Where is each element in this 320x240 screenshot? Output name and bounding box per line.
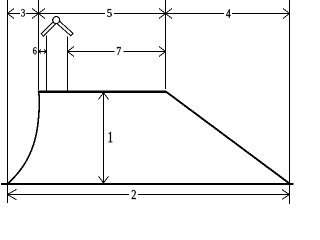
extension line B (crest left) [38,0,40,90]
dimension 2 line [8,194,290,196]
tower right leg [67,37,69,91]
tower left leg [46,36,48,91]
tower apex circle [53,17,60,24]
profile crest (flat top) [38,91,166,93]
dimension 4 line [166,13,290,15]
dimension 1 arrows [99,93,109,183]
label 4 [226,9,230,17]
dimension 4 arrows [166,9,290,19]
dimension 5 line [39,13,166,15]
tower roof band [41,19,73,37]
label 3 [21,9,25,16]
dimension 6 arrows [39,50,47,54]
dimension 5 arrows [39,9,166,19]
dimension 3 line [8,13,39,15]
dimension 2 arrows [8,189,290,200]
dimension 6 line [39,51,47,53]
label 2 [132,190,136,199]
label 5 [107,9,111,17]
ground baseline [1,183,294,185]
extension line C (crest right) [165,0,167,89]
dimension 3 arrows [8,9,39,19]
label 1 [109,132,113,142]
label 7 [117,47,121,55]
dimension 7 arrows [68,47,166,57]
dimension 1 line (vertical) [103,93,105,184]
label 6 [33,47,37,54]
extension line right (D) [289,0,291,204]
dimension 7 line [68,51,166,53]
profile upstream curve [8,92,40,184]
extension line left (A) [7,0,9,203]
profile downstream slope [166,92,290,184]
